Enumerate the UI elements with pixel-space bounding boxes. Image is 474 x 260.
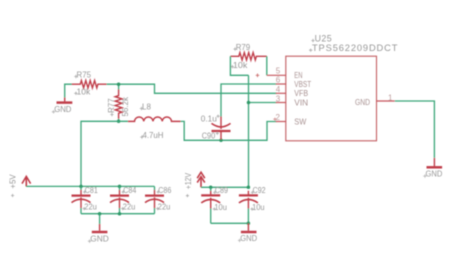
svg-text:C90: C90 <box>202 132 216 141</box>
capacitor C84 <box>110 190 129 208</box>
svg-text:R77: R77 <box>107 98 116 113</box>
svg-text:2: 2 <box>276 113 281 122</box>
svg-text:0.1u: 0.1u <box>201 115 217 124</box>
node junction C92 bottom / GND <box>247 222 251 226</box>
supply +12V arrow <box>197 172 205 187</box>
resistor R75 <box>72 81 107 88</box>
svg-text:C86: C86 <box>158 186 171 195</box>
pin 2 SW <box>276 121 286 123</box>
node junction C84 top <box>118 185 122 189</box>
svg-text:C92: C92 <box>253 186 266 195</box>
ground GND (left of R75) <box>57 98 73 103</box>
pin 1 GND <box>376 100 394 102</box>
svg-text:C84: C84 <box>123 186 136 195</box>
node junction C92 top <box>247 186 251 190</box>
svg-text:SW: SW <box>294 117 307 126</box>
svg-text:10u: 10u <box>252 203 265 212</box>
svg-text:TPS562209DDCT: TPS562209DDCT <box>312 43 398 53</box>
node junction C84 bottom <box>118 212 122 216</box>
svg-text:U25: U25 <box>315 34 332 44</box>
node origin cross (red +) <box>256 74 260 78</box>
op-amp U1: IC U25 box <box>286 56 377 141</box>
svg-text:10u: 10u <box>214 203 227 212</box>
wire GND stub (left bank) <box>99 214 101 225</box>
node junction C81 top <box>79 185 83 189</box>
node junction GND drop <box>98 212 102 216</box>
wire SW net: L8 right, step down, to pin 2 <box>181 121 277 140</box>
wire output net: corner to L8 left, down to +5V rail <box>81 121 128 186</box>
capacitor C92 <box>239 191 258 209</box>
svg-text:L8: L8 <box>142 103 151 112</box>
wire R75 left lead to GND <box>65 84 72 97</box>
svg-text:4: 4 <box>276 85 281 94</box>
svg-text:GND: GND <box>426 169 443 179</box>
svg-text:1: 1 <box>388 93 393 102</box>
capacitor C86 <box>145 190 164 208</box>
svg-text:GND: GND <box>54 104 71 114</box>
node junction R75/R77/VFB <box>117 82 121 86</box>
svg-text:56.2k: 56.2k <box>121 96 130 116</box>
svg-text:22u: 22u <box>158 203 171 212</box>
svg-text:C89: C89 <box>215 186 228 195</box>
node junction R77/output <box>117 120 121 124</box>
svg-text:5: 5 <box>276 66 281 75</box>
wire +12V rail <box>201 186 248 188</box>
wire VFB net: R75 right / R77 top to pin 4 <box>107 84 277 93</box>
ground GND (below right bank) <box>241 223 257 232</box>
pin 6 VBST <box>276 83 286 85</box>
wire +5V rail <box>26 185 154 187</box>
wire VBST net: pin 6 to C90 top <box>221 84 277 117</box>
svg-text:10k: 10k <box>77 87 92 96</box>
svg-text:R79: R79 <box>236 43 251 52</box>
inductor L8 <box>128 117 181 121</box>
node junction C89 top <box>209 186 213 190</box>
svg-text:3: 3 <box>276 95 281 104</box>
wire VIN vertical (R79 to +12V rail) <box>248 75 250 187</box>
wire pin 1 to right GND <box>395 101 435 158</box>
resistor R79 <box>230 53 266 60</box>
svg-text:GND: GND <box>240 233 257 243</box>
wire VIN to pin 3 <box>249 102 277 104</box>
wire R77 bottom stub <box>118 119 120 122</box>
wire R79 right lead to pin 5 <box>266 56 268 75</box>
svg-text:10k: 10k <box>233 61 249 70</box>
ground GND (below left bank) <box>92 224 108 232</box>
ground GND (right of IC) <box>427 158 443 167</box>
svg-text:4.7uH: 4.7uH <box>143 131 164 140</box>
svg-text:+12V: +12V <box>184 172 193 189</box>
pin 3 VIN <box>276 102 286 104</box>
svg-text:22u: 22u <box>123 203 136 212</box>
wire R77 top stub <box>118 84 120 90</box>
svg-text:6: 6 <box>276 75 281 84</box>
wire bottom rail (left bank) <box>81 213 155 215</box>
svg-text:VIN: VIN <box>294 98 308 107</box>
supply +5V arrow <box>22 176 31 186</box>
pin 5 EN <box>267 74 286 76</box>
capacitor C81 <box>72 190 91 208</box>
wire bottom rail (right bank) <box>211 222 249 224</box>
svg-text:GND: GND <box>355 98 370 107</box>
node junction VIN <box>247 101 251 105</box>
capacitor C89 <box>201 191 220 209</box>
pin 4 VFB <box>276 92 286 94</box>
svg-text:GND: GND <box>90 234 109 244</box>
resistor R77 <box>115 90 122 119</box>
svg-text:22u: 22u <box>84 203 97 212</box>
svg-text:EN: EN <box>294 71 302 80</box>
wire R79 left lead to VIN vertical <box>230 56 248 75</box>
svg-text:VBST: VBST <box>294 80 311 89</box>
svg-text:C81: C81 <box>85 186 98 195</box>
node junction C90 bottom / SW <box>219 139 223 143</box>
svg-text:+5V: +5V <box>9 174 18 189</box>
svg-text:VFB: VFB <box>294 89 308 98</box>
capacitor C90 <box>212 117 231 140</box>
svg-text:R75: R75 <box>77 70 92 79</box>
